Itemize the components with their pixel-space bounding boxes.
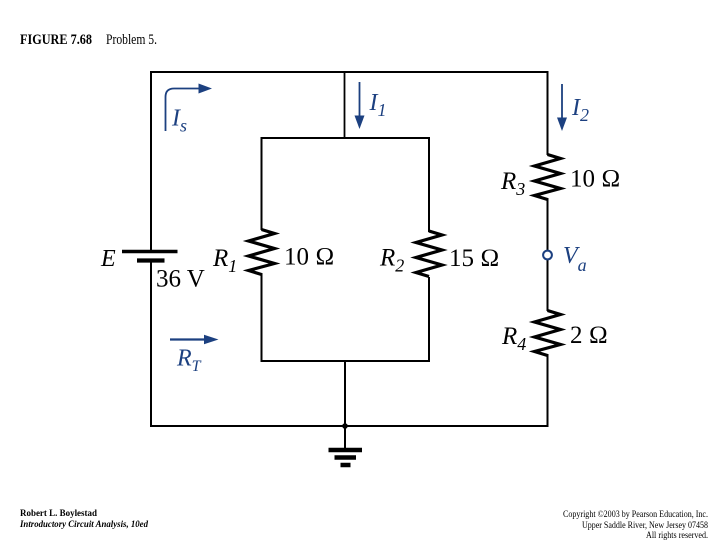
svg-text:FIGURE 7.68: FIGURE 7.68 bbox=[20, 32, 92, 48]
wire: inner top bbox=[261, 137, 431, 139]
wire: center bottom vertical (inner box to bottom bus) bbox=[344, 361, 346, 426]
wire: inner left upper (to R1) bbox=[261, 137, 263, 230]
svg-text:Robert L. Boylestad: Robert L. Boylestad bbox=[20, 509, 98, 519]
arrow I1 bbox=[355, 82, 365, 129]
resistor R1 bbox=[249, 230, 275, 275]
wire: node Va to R4 bbox=[547, 259, 549, 311]
svg-text:2 Ω: 2 Ω bbox=[570, 322, 608, 349]
resistor R2 bbox=[416, 231, 442, 277]
wire: inner left lower (R1 to bottom) bbox=[261, 273, 263, 362]
wire: inner right lower (R2 to bottom) bbox=[428, 277, 430, 362]
resistor R4 bbox=[535, 311, 561, 356]
wire: outer bottom bbox=[150, 425, 549, 427]
svg-text:All rights reserved.: All rights reserved. bbox=[646, 531, 708, 540]
wire: R4 to bottom bbox=[547, 354, 549, 427]
wire: inner right upper (to R2) bbox=[428, 137, 430, 232]
battery E plates bbox=[122, 252, 178, 261]
arrow RT bbox=[170, 335, 219, 345]
wire: outer left lower (battery to bottom) bbox=[150, 262, 152, 427]
svg-text:Problem 5.: Problem 5. bbox=[106, 32, 157, 48]
svg-text:Copyright ©2003 by Pearson Edu: Copyright ©2003 by Pearson Education, In… bbox=[563, 509, 708, 520]
wire: outer right upper (top to R3) bbox=[547, 71, 549, 155]
svg-text:36 V: 36 V bbox=[156, 266, 205, 293]
resistor R3 bbox=[535, 155, 561, 200]
wire: center top vertical (top bus to inner box) bbox=[344, 72, 346, 138]
svg-text:15 Ω: 15 Ω bbox=[449, 245, 499, 272]
wire: inner bottom bbox=[261, 360, 431, 362]
svg-text:10 Ω: 10 Ω bbox=[284, 244, 334, 271]
svg-text:Introductory Circuit Analysis,: Introductory Circuit Analysis, 10ed bbox=[19, 520, 148, 530]
junction dot bbox=[342, 423, 348, 429]
node Va circle bbox=[543, 251, 552, 260]
svg-text:Upper Saddle River, New Jersey: Upper Saddle River, New Jersey 07458 bbox=[582, 521, 708, 531]
arrow Is bbox=[166, 84, 213, 132]
svg-text:E: E bbox=[100, 246, 116, 272]
svg-text:10 Ω: 10 Ω bbox=[570, 166, 620, 193]
wire: R3 to node Va bbox=[547, 198, 549, 251]
wire: outer left upper (to battery) bbox=[150, 71, 152, 250]
ground bbox=[329, 426, 363, 465]
arrow I2 bbox=[557, 84, 567, 131]
wire: outer top bbox=[150, 71, 549, 73]
